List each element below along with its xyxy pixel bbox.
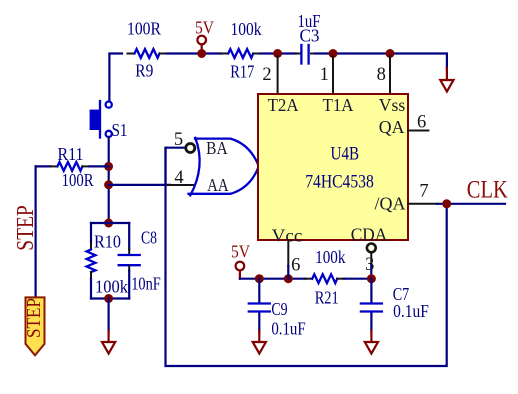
power port 5V bottom xyxy=(231,242,250,279)
svg-text:100k: 100k xyxy=(95,277,128,297)
junction dot CLK xyxy=(442,199,451,208)
pin 4 stub of gate xyxy=(166,168,195,188)
net label STEP red vertical xyxy=(13,205,39,251)
pin 2 T2A xyxy=(262,56,277,94)
junction dot Vss pin top xyxy=(386,49,395,58)
svg-text:3: 3 xyxy=(365,255,374,275)
pin 3 CDA with bubble xyxy=(365,244,376,279)
wire CLK net xyxy=(437,203,505,205)
svg-text:8: 8 xyxy=(377,65,386,85)
IC U4B 74HC4538 xyxy=(258,94,408,246)
resistor R11 100R xyxy=(36,144,109,190)
svg-text:R11: R11 xyxy=(58,144,84,164)
wire left drop to STEP flag xyxy=(34,166,36,297)
ground top right xyxy=(440,68,453,92)
svg-text:QA: QA xyxy=(379,117,405,137)
svg-text:7: 7 xyxy=(419,182,428,202)
wire R9 to R17 xyxy=(167,52,222,54)
svg-text:STEP: STEP xyxy=(13,205,39,251)
junction dot loop bottom xyxy=(104,294,113,303)
junction dot T2A pin top xyxy=(273,49,282,58)
svg-text:6: 6 xyxy=(417,113,426,133)
capacitor C8 10nF xyxy=(119,223,161,299)
port flag STEP yellow pointer xyxy=(24,297,45,355)
wire bottom supply rail xyxy=(240,278,305,280)
svg-text:R21: R21 xyxy=(315,288,339,308)
svg-text:0.1uF: 0.1uF xyxy=(393,301,429,321)
svg-text:T2A: T2A xyxy=(268,95,299,115)
junction dot loop top xyxy=(104,219,113,228)
ground under C7 xyxy=(365,331,378,354)
svg-text:5V: 5V xyxy=(195,18,214,38)
junction dot CDA node xyxy=(367,274,376,283)
svg-text:6: 6 xyxy=(291,255,300,275)
svg-text:100k: 100k xyxy=(231,19,262,39)
svg-text:BA: BA xyxy=(206,138,228,158)
wire long vertical and bottom return xyxy=(166,148,447,366)
pin 6 Vcc xyxy=(288,240,300,279)
junction dot 5V rail xyxy=(197,49,206,58)
svg-text:STEP: STEP xyxy=(24,298,45,338)
svg-text:R17: R17 xyxy=(230,62,254,82)
svg-text:CLK: CLK xyxy=(467,177,508,204)
junction dot Vcc node xyxy=(284,274,293,283)
svg-text:R9: R9 xyxy=(135,61,153,81)
svg-text:100k: 100k xyxy=(315,247,345,267)
capacitor C7 0.1uF xyxy=(361,279,429,332)
svg-text:C3: C3 xyxy=(300,26,320,46)
svg-text:AA: AA xyxy=(207,175,229,195)
svg-text:2: 2 xyxy=(262,65,271,85)
svg-text:0.1uF: 0.1uF xyxy=(271,319,305,339)
resistor R17 100k xyxy=(222,19,262,82)
junction dot R11 node xyxy=(104,162,113,171)
resistor R9 100R xyxy=(127,19,167,81)
pin 1 T1A xyxy=(320,56,333,94)
svg-text:C8: C8 xyxy=(141,228,157,248)
svg-text:C9: C9 xyxy=(271,299,287,319)
junction dot T1A pin top xyxy=(329,49,338,58)
svg-text:74HC4538: 74HC4538 xyxy=(305,172,374,193)
ground under C9 xyxy=(253,331,266,354)
wire top rail left corner xyxy=(109,54,122,102)
svg-text:CDA: CDA xyxy=(351,225,388,245)
junction dot AA node xyxy=(104,180,113,189)
pin 8 Vss xyxy=(377,56,390,94)
wire loop top xyxy=(91,222,129,224)
svg-text:100R: 100R xyxy=(127,19,161,39)
resistor R21 100k xyxy=(305,247,371,308)
pin 6 QA stub xyxy=(408,113,428,133)
svg-text:1: 1 xyxy=(320,65,329,85)
pin 5 wire and number xyxy=(166,130,187,185)
svg-text:S1: S1 xyxy=(112,120,128,140)
svg-text:5V: 5V xyxy=(231,242,250,262)
net label CLK xyxy=(467,177,508,204)
junction dot C9 node xyxy=(255,274,264,283)
bubble on gate pin 5 xyxy=(186,144,195,153)
wire S1 bottom down to loop top xyxy=(108,137,110,223)
capacitor C9 0.1uF xyxy=(249,279,306,339)
wire R17 to C3 xyxy=(260,52,296,54)
wire loop bottom to ground xyxy=(107,299,109,332)
wire C3 to right corner xyxy=(315,54,447,70)
capacitor C3 1uF xyxy=(296,11,321,64)
svg-text:/QA: /QA xyxy=(375,194,406,214)
svg-text:100R: 100R xyxy=(62,170,94,190)
svg-text:5: 5 xyxy=(174,130,183,150)
svg-text:U4B: U4B xyxy=(331,144,360,165)
svg-text:T1A: T1A xyxy=(323,95,354,115)
wire AA input from junction xyxy=(109,184,170,186)
power port 5V top xyxy=(195,18,214,54)
switch S1 xyxy=(90,101,128,140)
svg-text:4: 4 xyxy=(174,168,183,188)
ground under R10 xyxy=(102,331,115,354)
or-gate BA/AA xyxy=(189,138,259,196)
svg-text:R10: R10 xyxy=(94,232,121,252)
wire loop bottom xyxy=(91,297,129,299)
pin 7 /QA xyxy=(408,182,437,204)
svg-text:Vcc: Vcc xyxy=(272,226,303,246)
svg-text:Vss: Vss xyxy=(379,95,406,115)
resistor R10 100k xyxy=(87,223,128,299)
svg-text:10nF: 10nF xyxy=(131,274,161,294)
